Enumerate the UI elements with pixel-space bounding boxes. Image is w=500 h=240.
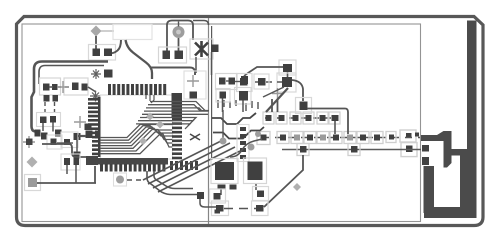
feed pad row2 — [406, 146, 413, 153]
via circle big — [173, 26, 185, 38]
big loop trace left — [32, 62, 109, 132]
fold line (long vertical divider) — [208, 18, 210, 224]
fan bus lower (from left column, stair to right column) — [100, 125, 172, 154]
IC courtyard — [101, 95, 173, 159]
pad — [256, 205, 264, 212]
pad C top — [283, 64, 292, 72]
dashed wire going left — [255, 81, 282, 83]
pads below big pads — [218, 185, 226, 190]
thick wire arc inner — [112, 40, 121, 53]
thick wire arc outer — [126, 40, 153, 79]
wire link — [287, 72, 289, 78]
box around top pad — [279, 60, 296, 75]
matching pad — [422, 157, 429, 165]
crystal box — [190, 39, 213, 59]
wire down — [221, 184, 256, 195]
rf component boxes row1 — [277, 132, 396, 144]
cross mark — [190, 134, 200, 140]
rf row2 pad — [351, 146, 358, 153]
dashed verticals below second pad pair — [45, 102, 55, 115]
s-curve trace — [230, 139, 262, 157]
box — [252, 201, 269, 216]
courtyard top right of diamond — [113, 25, 152, 40]
pad — [74, 158, 80, 165]
via gray — [220, 138, 227, 145]
pad — [53, 95, 59, 102]
IC left spine — [98, 97, 100, 157]
crystal X component — [195, 41, 208, 57]
pad — [64, 158, 70, 165]
diagonal bus below IC — [143, 139, 240, 192]
pad — [229, 78, 236, 85]
box — [244, 158, 267, 184]
wire drop from row2 to lower diagonal — [264, 155, 303, 207]
trace y 67.5 — [150, 68, 195, 76]
antenna bottom bar — [424, 207, 477, 218]
wire loop 2 — [154, 171, 193, 189]
pad mid — [300, 102, 308, 111]
via inner — [176, 30, 181, 35]
via cross 2 — [91, 69, 101, 79]
wire down from crystal — [196, 52, 212, 75]
board inner outline — [22, 24, 421, 222]
box — [47, 135, 62, 149]
pad — [26, 139, 33, 146]
antenna tall bar — [467, 21, 477, 161]
via gray — [255, 131, 261, 137]
rf chain trace — [262, 137, 420, 139]
pad below cross — [190, 92, 198, 99]
wire drops — [43, 123, 53, 132]
box — [40, 78, 61, 95]
antenna lower right wide bar — [460, 155, 477, 218]
wire from big pad right-down to pad — [292, 80, 303, 101]
pad — [257, 191, 264, 198]
wire vertical — [76, 140, 78, 152]
IC left bottom mass — [86, 156, 98, 165]
small pad near bottom border — [215, 210, 221, 214]
dashed wire right — [127, 179, 143, 181]
via diamond — [91, 26, 102, 37]
antenna feed trace and mid bar — [421, 131, 452, 168]
box lower — [216, 89, 230, 103]
components y 130-150 row — [41, 130, 101, 159]
IC right pin column — [172, 118, 182, 159]
origin cross marker — [272, 88, 283, 99]
box around mid dash pad — [254, 74, 269, 89]
wire up from y183 — [94, 166, 96, 183]
wire from via up — [222, 110, 224, 138]
box around via — [114, 173, 127, 186]
IC top pin row — [108, 84, 166, 95]
box — [61, 132, 78, 148]
wire from diamond down — [95, 36, 97, 49]
pad — [93, 49, 101, 57]
diagonal wire thick — [266, 88, 288, 112]
box bottom-left — [25, 175, 41, 191]
box — [216, 74, 238, 90]
big pad C — [282, 77, 292, 87]
wire from upper chain down to row1 — [334, 121, 336, 134]
rf chain first pad — [261, 135, 267, 141]
cross marker — [57, 81, 69, 93]
wire corner to row1 — [307, 109, 348, 135]
upper chain trace — [265, 117, 336, 119]
pads — [219, 78, 226, 85]
pad — [85, 124, 92, 131]
box — [212, 201, 229, 216]
rf row2 trace — [282, 149, 421, 151]
IC bottom bar — [95, 158, 168, 165]
IC left pin column — [88, 98, 100, 155]
pad at loop end — [197, 192, 204, 199]
rf pads row1 — [280, 135, 394, 141]
via diamond gray — [27, 157, 38, 168]
pad far left of dash — [241, 76, 248, 84]
box — [253, 187, 269, 201]
IC right column solid top — [172, 93, 183, 118]
box around mid pad — [296, 98, 312, 114]
gray diamond vias scattered — [146, 113, 154, 121]
cross marker — [187, 75, 199, 87]
big pad left — [215, 162, 234, 180]
cross marker — [74, 116, 86, 128]
gray pad inside — [28, 178, 37, 187]
dash — [235, 81, 240, 83]
cross component — [23, 136, 35, 148]
pad — [216, 205, 224, 212]
pad mid of dash — [258, 78, 266, 86]
wire up-right to top pad — [244, 67, 283, 76]
wire curve from pad 197 down — [200, 199, 216, 207]
wire from via down — [178, 38, 180, 51]
box — [64, 78, 88, 95]
pad top-left cluster — [35, 130, 41, 137]
light trace from diamond — [101, 30, 114, 32]
pad — [104, 49, 112, 57]
via — [156, 121, 164, 129]
wire — [57, 142, 73, 144]
box around pads — [89, 45, 116, 61]
capacitor pair box — [61, 154, 80, 170]
matching pad — [422, 145, 429, 152]
box — [211, 159, 238, 184]
pads at x 40-56 y 116-123 — [40, 117, 47, 124]
drops from IC bottom and loops — [147, 171, 197, 195]
box around pin column — [237, 125, 249, 162]
big pad lower — [239, 91, 248, 101]
pad — [175, 51, 184, 60]
feed pad row1 small — [415, 133, 419, 137]
diagonal wire pair — [263, 87, 284, 97]
pad — [240, 78, 248, 86]
pad — [214, 193, 221, 200]
antenna short connector — [449, 149, 467, 156]
box around cross comp — [184, 71, 206, 99]
second pad pair below — [44, 95, 50, 102]
connector pad row right of IC bottom — [170, 161, 198, 170]
IC bottom pin teeth — [100, 164, 165, 172]
feed pad row1 — [406, 133, 412, 138]
feed component box row2 — [401, 143, 417, 157]
via gray — [248, 144, 255, 151]
top trace continuation — [193, 21, 209, 26]
pad — [230, 185, 237, 190]
wire from via up to loop — [178, 22, 180, 27]
wire long elbow — [42, 144, 95, 157]
upper chain pads — [266, 115, 339, 121]
pad right of crystal — [211, 45, 219, 53]
box — [235, 88, 252, 105]
wires from top pins into IC — [146, 95, 154, 103]
dash between pads — [226, 80, 229, 82]
inner loop trace — [39, 66, 104, 85]
knot of traces right of divider — [212, 113, 264, 139]
wire thick short — [78, 135, 86, 137]
feed component box row1 — [400, 130, 416, 142]
rf chain first box — [257, 132, 270, 145]
antenna left U bar — [424, 166, 435, 213]
fan bus upper (exits right across column) — [136, 102, 209, 129]
pad — [50, 116, 56, 123]
pads row — [43, 83, 88, 91]
box — [210, 189, 226, 203]
vertical pair below cross — [272, 99, 278, 112]
wires below pad pair — [67, 165, 76, 183]
rf row2 pad — [300, 146, 307, 153]
dashed wire between lower pads — [224, 208, 256, 210]
pad — [163, 51, 171, 60]
box around — [37, 113, 61, 127]
via cross 1 — [90, 91, 101, 102]
rf row2 box — [297, 144, 309, 156]
via — [293, 183, 301, 191]
wire right from row — [88, 87, 96, 92]
wire y183 — [37, 182, 96, 184]
wires down from cluster — [223, 99, 244, 113]
rf via pads row1 (gray) — [294, 135, 353, 141]
dashes between row pads — [49, 86, 73, 88]
wire vertical trace beside divider — [211, 26, 213, 160]
upper chain boxes — [263, 112, 340, 124]
via — [139, 137, 147, 145]
via circle w/ box — [116, 176, 124, 184]
loop trace to crystal — [167, 21, 193, 52]
comb of pin hooks — [218, 100, 258, 111]
box around pads — [159, 47, 187, 63]
rf row2 box — [348, 144, 360, 156]
big pad right — [248, 162, 263, 181]
pad near cross2 — [104, 70, 113, 78]
box around big pad — [277, 73, 296, 92]
pad lower — [220, 92, 227, 99]
box — [237, 74, 253, 92]
pin column pads — [240, 127, 246, 159]
